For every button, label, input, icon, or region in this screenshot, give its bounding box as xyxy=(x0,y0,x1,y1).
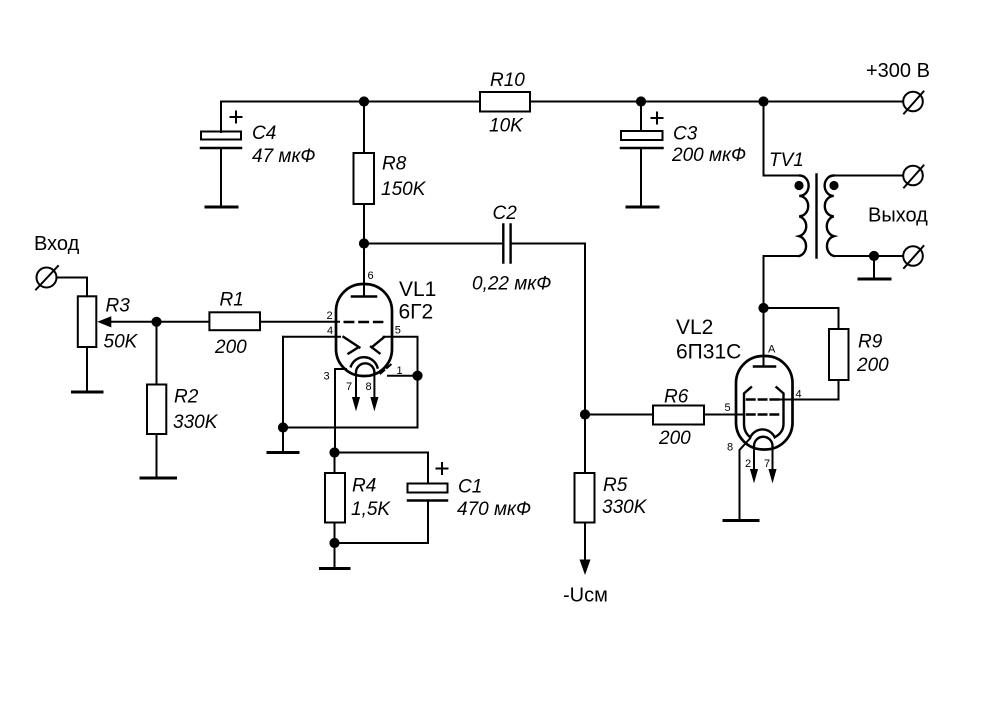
wire VL1 pin 1 xyxy=(388,375,418,377)
resistor R10 xyxy=(480,70,530,137)
node junction R8 bottom / C2 / VL1 pin6 xyxy=(359,238,369,248)
svg-text:470 мкФ: 470 мкФ xyxy=(457,499,531,520)
VL1 cathode xyxy=(351,357,378,367)
VL2 anode xyxy=(754,308,776,367)
node junction C2/R6/R5 xyxy=(580,409,590,419)
ground of VL2 cathode xyxy=(724,519,758,522)
ground of R2 xyxy=(141,477,176,480)
resistor R9 xyxy=(778,329,889,400)
ground of R4 xyxy=(321,567,350,570)
resistor R6 xyxy=(585,387,704,450)
svg-text:330K: 330K xyxy=(602,497,648,518)
node junction secondary ground xyxy=(869,251,879,261)
terminal output top xyxy=(903,166,923,188)
svg-text:7: 7 xyxy=(346,381,352,393)
svg-text:200: 200 xyxy=(214,337,247,358)
svg-text:A: A xyxy=(768,344,776,356)
transformer TV1 xyxy=(769,150,839,258)
tube VL2 6P31S xyxy=(676,316,793,450)
terminal +300 V xyxy=(866,60,930,114)
svg-text:2: 2 xyxy=(745,458,751,470)
svg-text:8: 8 xyxy=(727,442,733,454)
svg-text:C3: C3 xyxy=(673,124,698,145)
wire VL2 cathode lead pin 8 xyxy=(740,439,751,521)
VL2 heater xyxy=(745,437,776,482)
node junction R4 bottom xyxy=(329,538,339,548)
node junction R8 top xyxy=(359,96,369,106)
svg-text:1,5K: 1,5K xyxy=(351,499,391,520)
svg-text:R2: R2 xyxy=(174,387,199,408)
svg-text:VL2: VL2 xyxy=(676,316,713,339)
ground of VL1 grid bus xyxy=(268,451,298,454)
svg-text:R10: R10 xyxy=(490,70,525,91)
svg-text:330K: 330K xyxy=(173,412,219,433)
svg-text:6: 6 xyxy=(368,270,374,282)
svg-text:C4: C4 xyxy=(252,123,276,144)
potentiometer R3 xyxy=(78,296,157,353)
resistor R5 xyxy=(575,415,648,560)
wire R3 bottom xyxy=(86,347,88,391)
VL1 pin 1 dashed lead xyxy=(381,364,393,374)
svg-text:R4: R4 xyxy=(352,476,376,497)
arrow -Ucm xyxy=(580,560,590,574)
VL1 left diode plate xyxy=(344,337,360,354)
capacitor C4 xyxy=(201,102,316,207)
svg-text:6Г2: 6Г2 xyxy=(399,301,434,324)
svg-text:R1: R1 xyxy=(220,290,244,311)
svg-text:200 мкФ: 200 мкФ xyxy=(671,145,746,166)
svg-text:5: 5 xyxy=(395,325,401,337)
capacitor C3 xyxy=(621,102,746,207)
svg-text:R9: R9 xyxy=(858,332,883,353)
terminal input xyxy=(36,266,58,290)
svg-text:3: 3 xyxy=(324,371,330,383)
wire R6 to VL2 grid xyxy=(704,414,744,416)
wire VL1 pin 4 xyxy=(283,336,340,338)
VL2 control grid dashed pin 5 xyxy=(725,402,780,415)
svg-text:TV1: TV1 xyxy=(769,150,804,171)
svg-text:-Uсм: -Uсм xyxy=(563,585,608,607)
wire input to R3 xyxy=(57,278,88,297)
svg-text:C1: C1 xyxy=(458,477,482,498)
svg-text:4: 4 xyxy=(327,325,333,337)
svg-text:200: 200 xyxy=(856,355,889,376)
svg-text:R3: R3 xyxy=(106,296,131,317)
node junction TV1 top xyxy=(758,96,768,106)
svg-text:7: 7 xyxy=(764,458,770,470)
svg-text:5: 5 xyxy=(725,402,731,414)
svg-text:+300 В: +300 В xyxy=(866,60,930,82)
tube VL1 6G2 xyxy=(336,278,436,376)
node junction R3/R1/R2 xyxy=(151,317,161,327)
wire TV1 secondary top xyxy=(834,175,903,177)
ground of secondary xyxy=(873,256,875,278)
node junction pin4 ground xyxy=(278,422,288,432)
ground of C3 xyxy=(627,206,658,209)
node junction anode/R9/TV1 xyxy=(758,303,768,313)
wire C2 right xyxy=(512,244,585,415)
VL1 grid dashed pin 2 xyxy=(327,310,383,322)
wire VL1 pin4 down xyxy=(282,337,284,453)
VL1 right diode plate xyxy=(371,337,384,353)
svg-text:Выход: Выход xyxy=(868,205,928,227)
VL1 heater xyxy=(346,363,378,409)
svg-text:50K: 50K xyxy=(104,332,139,353)
svg-text:VL1: VL1 xyxy=(399,278,436,301)
svg-text:0,22 мкФ: 0,22 мкФ xyxy=(472,274,551,295)
VL2 cathode cup xyxy=(744,387,784,437)
svg-text:8: 8 xyxy=(366,381,372,393)
resistor R2 xyxy=(147,322,219,477)
svg-text:47 мкФ: 47 мкФ xyxy=(252,146,316,167)
svg-text:2: 2 xyxy=(327,310,333,322)
capacitor C1 xyxy=(408,453,532,544)
VL2 screen grid dashed pin 4 xyxy=(747,389,802,401)
wire top rail left segment xyxy=(221,101,480,103)
wire VL1 pin 5 xyxy=(384,337,418,376)
node junction cathode / R4 / C1 xyxy=(329,447,339,457)
node junction C3 xyxy=(636,96,646,106)
svg-text:R6: R6 xyxy=(664,387,689,408)
terminal output bottom xyxy=(903,246,923,268)
ground of C4 xyxy=(206,206,237,209)
svg-text:10K: 10K xyxy=(489,116,524,137)
capacitor C2 xyxy=(472,203,551,295)
node junction pin1/pin5 xyxy=(412,371,422,381)
svg-text:Вход: Вход xyxy=(34,233,80,255)
ground of R3 xyxy=(73,391,103,394)
resistor R8 xyxy=(354,102,427,244)
wire C2 left xyxy=(364,243,502,245)
wire cathode node to C1 xyxy=(335,452,429,454)
wire R4 ground drop xyxy=(334,543,336,568)
resistor R4 xyxy=(325,453,391,544)
svg-text:150K: 150K xyxy=(381,179,427,200)
wire to R9 xyxy=(764,308,839,329)
svg-text:200: 200 xyxy=(658,428,691,449)
wire R1 to VL1 grid xyxy=(260,321,339,323)
wire pins to bottom bus xyxy=(283,376,418,428)
wire C1 bottom to R4 bottom xyxy=(335,542,429,544)
svg-text:C2: C2 xyxy=(493,203,518,224)
wire TV1 secondary bottom xyxy=(834,255,903,257)
svg-text:6П31С: 6П31С xyxy=(676,341,741,364)
svg-text:4: 4 xyxy=(796,389,802,401)
wire VL1 cathode lead pin 3 xyxy=(335,369,346,453)
wire TV1 primary top xyxy=(764,102,801,176)
resistor R1 xyxy=(157,290,261,359)
wire top rail right segment xyxy=(530,101,903,103)
wire TV1 primary bottom xyxy=(764,256,800,308)
svg-text:R8: R8 xyxy=(382,154,407,175)
VL1 anode pin 6 xyxy=(352,244,376,297)
svg-text:R5: R5 xyxy=(603,475,628,496)
